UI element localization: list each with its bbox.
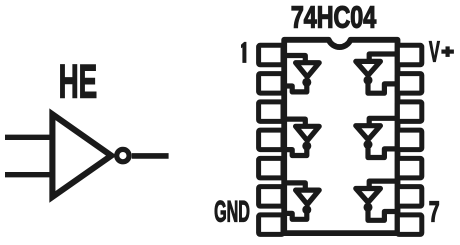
inverter cell 1 bubble (302, 78, 311, 87)
inverter cell 5 output wire (368, 145, 398, 158)
svg-text:7: 7 (429, 196, 440, 228)
IC U1 package body with notch (284, 40, 397, 233)
inverter cell 6 input wire (right top) (369, 54, 397, 61)
inverter cell 5 triangle (356, 126, 381, 140)
inversion bubble (117, 149, 129, 161)
wire input A (upper input line of inverter) (5, 135, 55, 140)
pin 7 (left, GND) (259, 215, 283, 235)
inverter cell 2 bubble (302, 141, 311, 150)
pin 13 (right) (397, 74, 421, 94)
pin 3 (left) (259, 102, 283, 122)
inverter cell 2 triangle (296, 126, 320, 140)
pin 1 (left) (259, 45, 283, 65)
svg-text:V: V (429, 37, 440, 69)
pin 4 (left) (259, 130, 283, 150)
svg-text:74HC04: 74HC04 (291, 0, 376, 34)
pin 5 (left) (259, 158, 283, 178)
inverter cell 4 input wire (right bottom) (369, 181, 397, 188)
pin 14 (right, V+) (397, 45, 421, 65)
wire output (132, 153, 169, 159)
inverter cell 3 input wire (284, 183, 305, 190)
inverter cell 5 bubble (364, 140, 373, 149)
inverter cell 1 output wire (284, 82, 307, 92)
inverter cell 3 bubble (302, 205, 311, 214)
inverter gate triangle (52, 114, 111, 197)
pin 2 (left) (259, 74, 283, 94)
inverter cell 2 input wire (284, 119, 305, 126)
inverter cell 6 triangle (356, 61, 381, 75)
pin 12 (right) (397, 102, 421, 122)
pin 6 (left) (259, 187, 283, 207)
svg-text:GND: GND (214, 196, 250, 228)
inverter cell 3 triangle (296, 190, 320, 204)
plus sign of V+ (441, 50, 454, 54)
wire input B (lower input line of inverter) (5, 172, 55, 177)
inverter cell 2 output wire (284, 146, 307, 156)
pin 10 (right) (397, 158, 421, 178)
pin label 1 (241, 42, 246, 63)
inverter cell 4 bubble (364, 203, 373, 212)
inverter cell 4 triangle (356, 189, 381, 203)
pin 11 (right) (397, 130, 421, 150)
inverter cell 1 input wire (pin1 to gate) (284, 56, 305, 63)
inverter cell 3 output wire (284, 210, 307, 220)
pin 8 (right) (397, 215, 421, 235)
inverter cell 6 output wire (368, 80, 398, 93)
inverter cell 4 output wire (368, 207, 398, 220)
svg-text:HE: HE (59, 55, 98, 108)
inverter cell 5 input wire (right middle) (369, 118, 397, 125)
inverter cell 6 bubble (364, 76, 373, 85)
inverter cell 1 triangle (296, 63, 320, 77)
pin 9 (right) (397, 187, 421, 207)
